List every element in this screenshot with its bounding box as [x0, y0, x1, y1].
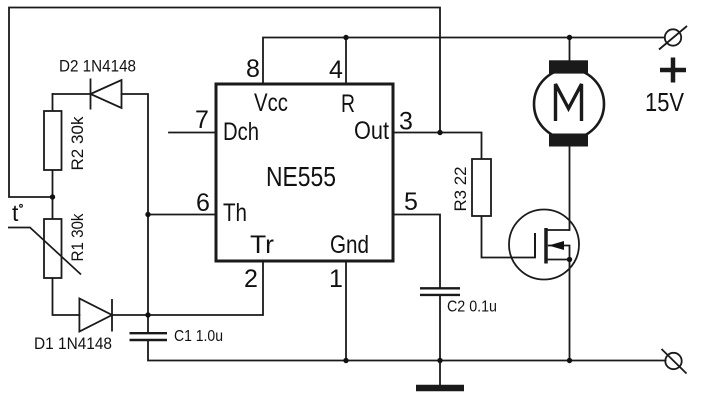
- wire motor bottom to MOSFET drain: [569, 147, 571, 231]
- svg-text:C2 0.1u: C2 0.1u: [447, 299, 497, 316]
- ground: [416, 361, 464, 389]
- label plus sign: [660, 58, 686, 83]
- thermistor diagonal stroke: [8, 228, 81, 275]
- node pin1/rail junction: [343, 358, 348, 363]
- resistor R2: [44, 111, 62, 170]
- wire pin 2 Tr down and left: [148, 261, 263, 315]
- svg-text:R3 22: R3 22: [451, 167, 470, 212]
- svg-text:NE555: NE555: [266, 161, 336, 192]
- wire bottom ground rail: [148, 341, 666, 361]
- brush top: [549, 60, 588, 73]
- svg-text:t: t: [12, 200, 19, 226]
- wire motor top lead: [569, 38, 571, 61]
- svg-text:C1 1.0u: C1 1.0u: [174, 328, 223, 345]
- node MOSFET body-source junction: [567, 257, 572, 262]
- resistor R3: [472, 159, 491, 216]
- wire C1 top lead: [147, 315, 149, 333]
- wire Vcc rail pin8 to +15V terminal: [263, 38, 665, 85]
- diode D1: [79, 299, 112, 332]
- svg-text:Th: Th: [223, 199, 247, 227]
- svg-text:15V: 15V: [645, 87, 685, 117]
- terminal ground: [662, 349, 687, 374]
- wire pin 5 to C2 top: [393, 215, 440, 289]
- svg-text:Dch: Dch: [223, 118, 259, 146]
- wire MOSFET source down to rail: [569, 260, 571, 361]
- capacitor C1: [130, 333, 168, 340]
- wire R3 bottom to gate: [482, 216, 536, 258]
- svg-text:R: R: [341, 90, 355, 118]
- wire R2 bottom lead: [52, 170, 54, 197]
- wire pin 3 Out to R3 top: [393, 133, 482, 160]
- thermistor R1: [44, 219, 62, 278]
- svg-text:3: 3: [399, 108, 413, 136]
- diode D2: [91, 79, 122, 110]
- terminal +15V: [659, 26, 687, 50]
- svg-text:R2 30k: R2 30k: [68, 116, 87, 170]
- source link: [546, 259, 570, 261]
- svg-text:Out: Out: [354, 117, 389, 145]
- wire R1 top lead: [52, 197, 54, 219]
- node source/rail junction: [567, 358, 572, 363]
- svg-text:1: 1: [329, 265, 343, 293]
- svg-text:2: 2: [244, 265, 258, 293]
- channel bar: [544, 228, 548, 264]
- gate bar: [534, 233, 536, 258]
- node C2/ground junction: [437, 358, 442, 363]
- svg-text:5: 5: [404, 188, 418, 216]
- wire pin 6 Th lead: [148, 214, 216, 216]
- body link with bend: [548, 246, 570, 260]
- node motor/Vcc junction: [567, 35, 572, 40]
- svg-text:Tr: Tr: [250, 231, 274, 259]
- node Th junction: [145, 212, 150, 217]
- transistor Q1 MOSFET: [509, 210, 579, 280]
- wire D2 branch vertical to Th and C1 node: [53, 94, 149, 315]
- node pin4/Vcc junction: [343, 35, 348, 40]
- capacitor C2: [420, 288, 460, 295]
- motor M: [534, 60, 604, 146]
- node Out junction: [437, 130, 442, 135]
- brush bottom: [549, 134, 588, 147]
- wire R2 top lead: [52, 94, 54, 111]
- letter M: [556, 84, 582, 121]
- svg-text:8: 8: [246, 55, 260, 83]
- svg-text:R1 30k: R1 30k: [68, 213, 87, 261]
- body arrow: [549, 241, 565, 250]
- wire pin 4 reset drop: [345, 38, 347, 85]
- wire R1 bottom to D1 anode: [53, 278, 80, 315]
- IC U1 NE555 body: [216, 84, 393, 261]
- wire C2 bottom lead: [439, 296, 441, 361]
- wire pin 1 Gnd down to rail: [345, 261, 347, 361]
- node D1/C1/Tr junction: [145, 312, 150, 317]
- svg-text:7: 7: [195, 106, 209, 134]
- svg-text:6: 6: [196, 189, 210, 217]
- svg-text:D2 1N4148: D2 1N4148: [59, 57, 136, 76]
- node R2/R1 junction: [50, 194, 55, 199]
- wire D1 cathode to node: [112, 314, 148, 316]
- svg-text:D1 1N4148: D1 1N4148: [34, 334, 112, 353]
- drain link: [546, 229, 570, 231]
- svg-text:Gnd: Gnd: [330, 231, 369, 259]
- svg-text:4: 4: [329, 56, 343, 84]
- svg-text:Vcc: Vcc: [254, 89, 288, 117]
- wire top-left loop from R junction to Out node: [9, 8, 440, 198]
- wire pin 7 Dch stub: [169, 132, 216, 134]
